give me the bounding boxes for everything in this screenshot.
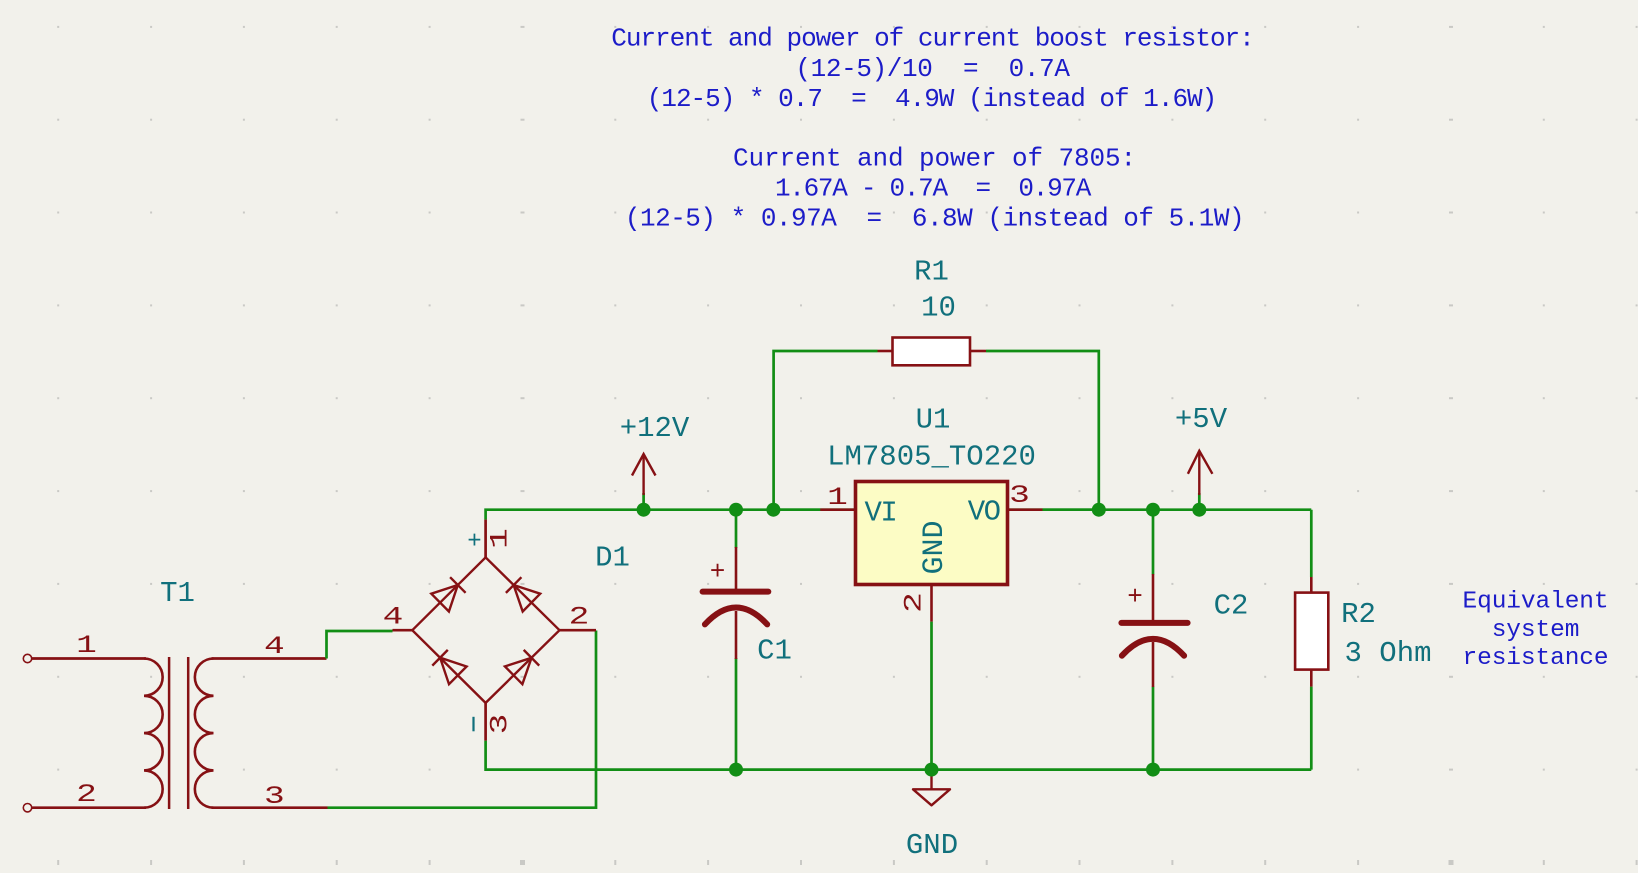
wire: +12V rail top bus — [486, 510, 1312, 520]
svg-text:4: 4 — [383, 604, 404, 632]
svg-text:3: 3 — [264, 783, 285, 811]
C2 bottom plate (arc) — [1122, 639, 1184, 656]
svg-text:Equivalent: Equivalent — [1462, 588, 1608, 615]
svg-text:3: 3 — [486, 714, 514, 735]
junction +5V arrow — [1192, 503, 1206, 517]
svg-text:Current and power of 7805:: Current and power of 7805: — [733, 143, 1136, 173]
capacitor C1 — [703, 547, 792, 668]
T1 pin 2 lead — [32, 806, 146, 809]
svg-text:Current and power of current b: Current and power of current boost resis… — [611, 23, 1254, 53]
resistor R1 — [878, 256, 987, 366]
D1 diode minus to AC-right — [505, 658, 532, 684]
ground symbol GND — [906, 770, 958, 862]
svg-text:D1: D1 — [595, 542, 630, 575]
T1 pin 4 lead — [212, 657, 327, 660]
svg-text:3 Ohm: 3 Ohm — [1344, 637, 1431, 670]
svg-text:U1: U1 — [916, 404, 951, 437]
wire: T1 pin4 to bridge AC left — [327, 631, 393, 659]
T1 pin 1 lead — [32, 657, 146, 660]
svg-text:R1: R1 — [914, 256, 949, 289]
D1 diode AC-right to plus — [514, 585, 541, 612]
wire: R1 right leg — [986, 351, 1099, 510]
svg-text:+: + — [710, 557, 726, 587]
svg-text:+: + — [1127, 582, 1143, 612]
junction C2 bottom — [1146, 763, 1160, 777]
wire: U1 pin3 stub — [1043, 508, 1099, 511]
junction GND node — [925, 763, 939, 777]
power symbol +5V — [1175, 403, 1228, 510]
junction +12V arrow — [637, 503, 651, 517]
svg-text:C2: C2 — [1214, 590, 1249, 623]
svg-text:3: 3 — [1009, 482, 1030, 510]
svg-text:1: 1 — [827, 484, 848, 512]
svg-text:LM7805_TO220: LM7805_TO220 — [827, 441, 1036, 474]
svg-text:VO: VO — [968, 496, 1000, 529]
svg-text:1: 1 — [486, 528, 514, 549]
wire: C1 bottom stub — [735, 658, 738, 770]
U1 pin 3 lead — [1008, 508, 1043, 511]
svg-text:+5V: +5V — [1175, 403, 1228, 436]
svg-text:(12-5) * 0.97A = 6.8W (inste: (12-5) * 0.97A = 6.8W (instead of 5.1W) — [625, 203, 1244, 233]
junction C1 top — [729, 503, 743, 517]
capacitor C2 — [1121, 574, 1248, 687]
junction U1 VI node — [766, 503, 780, 517]
T1 primary winding — [144, 659, 163, 808]
svg-text:4: 4 — [264, 633, 285, 661]
svg-text:T1: T1 — [160, 577, 195, 610]
svg-text:2: 2 — [901, 592, 929, 613]
D1 minus polarity mark — [472, 717, 474, 732]
D1 pin 4 (AC left) lead — [393, 629, 413, 632]
wire: R1 left leg — [774, 351, 878, 510]
D1 pin 3 (minus) lead — [484, 703, 487, 741]
svg-text:2: 2 — [76, 781, 97, 809]
svg-text:system: system — [1492, 617, 1580, 644]
T1 core line left — [168, 657, 171, 809]
bridge rectifier D1 — [383, 520, 630, 741]
wire: U1 pin1 stub — [773, 508, 820, 511]
wire: U1 pin2 to ground bus — [930, 622, 933, 770]
wire: C2 top stub — [1152, 510, 1155, 575]
D1 diode minus to AC-left — [440, 658, 467, 685]
wire: C2 bottom stub — [1152, 687, 1155, 770]
svg-text:GND: GND — [918, 520, 952, 574]
C1 bottom plate (arc) — [705, 608, 767, 625]
transformer T1 — [23, 577, 327, 812]
wire: R2 bottom stub — [1310, 687, 1313, 770]
D1 diamond outline — [412, 557, 559, 703]
D1 pin 1 (plus) lead — [484, 520, 487, 558]
svg-text:C1: C1 — [757, 635, 792, 668]
svg-text:GND: GND — [906, 829, 958, 862]
wire: T1 pin3 to bridge AC right (bottom) — [328, 631, 597, 808]
wire: R2 top stub — [1310, 510, 1313, 577]
power symbol +12V — [620, 412, 690, 510]
resistor R2 — [1295, 577, 1431, 687]
T1 secondary winding — [195, 659, 214, 808]
svg-text:10: 10 — [921, 292, 956, 325]
U1 pin 2 lead — [930, 585, 933, 622]
svg-text:R2: R2 — [1341, 598, 1376, 631]
C2 top plate — [1121, 620, 1187, 626]
regulator U1 LM7805 — [820, 404, 1042, 622]
C1 top plate — [703, 589, 769, 595]
svg-text:+: + — [467, 528, 481, 555]
pin 1 open-circle endpoint — [23, 654, 31, 662]
svg-text:+12V: +12V — [620, 412, 690, 445]
T1 core line right — [187, 657, 190, 809]
svg-text:1.67A - 0.7A = 0.97A: 1.67A - 0.7A = 0.97A — [775, 173, 1092, 203]
svg-text:VI: VI — [865, 497, 897, 530]
D1 pin 2 (AC right) lead — [560, 629, 597, 632]
U1 body — [856, 482, 1008, 585]
svg-text:1: 1 — [76, 632, 97, 660]
wire: bridge minus to ground bus — [486, 741, 1312, 770]
D1 diode AC-left to plus — [431, 585, 458, 612]
junction R1 right leg — [1092, 503, 1106, 517]
T1 pin 3 lead — [212, 806, 328, 809]
svg-text:2: 2 — [569, 604, 590, 632]
svg-text:resistance: resistance — [1462, 645, 1608, 672]
U1 pin 1 lead — [820, 508, 855, 511]
svg-text:(12-5) * 0.7 = 4.9W (instead: (12-5) * 0.7 = 4.9W (instead of 1.6W) — [647, 84, 1217, 114]
junction C1 bottom — [729, 763, 743, 777]
wire: C1 top stub — [735, 510, 738, 548]
svg-text:(12-5)/10 = 0.7A: (12-5)/10 = 0.7A — [795, 54, 1070, 84]
junction C2 top — [1146, 503, 1160, 517]
pin 2 open-circle endpoint — [23, 804, 31, 812]
